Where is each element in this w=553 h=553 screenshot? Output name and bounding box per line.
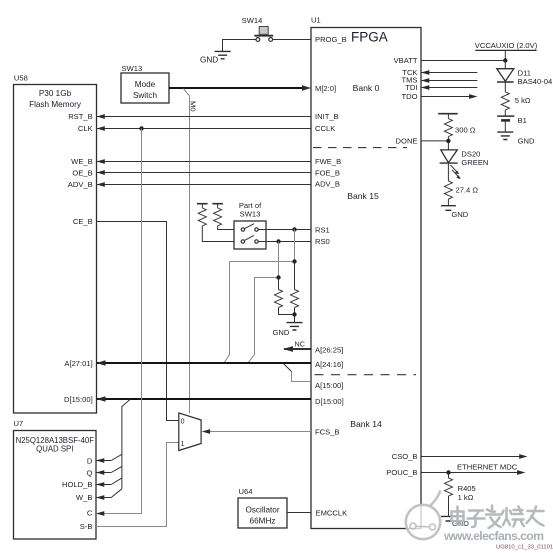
wire DONE — [421, 140, 448, 142]
svg-text:FWE_B: FWE_B — [315, 157, 341, 166]
svg-text:Mode: Mode — [135, 80, 156, 89]
svg-text:FCS_B: FCS_B — [315, 428, 339, 437]
svg-text:M0: M0 — [189, 101, 198, 112]
wire RS0 — [258, 241, 311, 243]
svg-text:HOLD_B: HOLD_B — [62, 480, 92, 489]
wire A[15:00] jog — [283, 364, 311, 382]
svg-text:RST_B: RST_B — [68, 112, 92, 121]
wire TCK — [421, 70, 477, 75]
resistor pull-up RS1 (bar + zigzag) — [197, 204, 234, 242]
svg-text:POUC_B: POUC_B — [386, 468, 417, 477]
bus M[2:0] — [169, 85, 311, 91]
wire SPI C to CCLK — [96, 129, 142, 516]
LED DS20 — [440, 150, 489, 180]
node DONE junction — [446, 139, 450, 143]
svg-text:U7: U7 — [14, 419, 24, 428]
resistor pull-down (RS1 net) — [291, 262, 299, 323]
svg-text:U1: U1 — [311, 16, 321, 25]
svg-text:WE_B: WE_B — [71, 157, 93, 166]
resistor R405 1 kOhm — [445, 473, 476, 517]
FPGA U1 — [311, 16, 421, 529]
svg-text:B1: B1 — [518, 116, 527, 125]
svg-text:A[24:16]: A[24:16] — [315, 360, 343, 369]
svg-text:Bank 14: Bank 14 — [350, 419, 382, 429]
svg-text:5 kΩ: 5 kΩ — [515, 96, 531, 105]
node POUC_B junction — [446, 470, 450, 474]
svg-text:A[26:25]: A[26:25] — [315, 345, 343, 354]
svg-text:ADV_B: ADV_B — [68, 180, 93, 189]
wire SW14 to GND — [223, 40, 257, 52]
svg-text:SW14: SW14 — [242, 16, 263, 25]
svg-text:R405: R405 — [458, 484, 476, 493]
svg-text:TDO: TDO — [401, 92, 417, 101]
ground (DS20) — [441, 206, 469, 219]
wire RS1 — [258, 229, 311, 231]
battery B1 — [497, 116, 527, 132]
svg-text:BAS40-04: BAS40-04 — [518, 77, 553, 86]
svg-text:NC: NC — [295, 339, 305, 348]
wire TDO — [421, 94, 477, 99]
svg-text:W_B: W_B — [76, 493, 92, 502]
oscillator U64 — [238, 487, 287, 528]
svg-text:Flash Memory: Flash Memory — [29, 100, 82, 109]
wire WE_B / FWE_B — [97, 159, 312, 164]
svg-text:SW13: SW13 — [122, 64, 143, 73]
power rail VCCAUXIO — [475, 41, 538, 61]
svg-text:PROG_B: PROG_B — [315, 35, 347, 44]
svg-text:Bank 15: Bank 15 — [347, 191, 379, 201]
svg-text:A[15:00]: A[15:00] — [315, 381, 343, 390]
flash memory U58 — [14, 74, 97, 414]
wire PROG_B — [273, 39, 311, 41]
node CCLK junction — [139, 126, 143, 130]
node RS1 junction — [292, 227, 296, 231]
svg-text:CE_B: CE_B — [73, 217, 93, 226]
svg-text:M[2:0]: M[2:0] — [315, 84, 336, 93]
svg-text:GND: GND — [273, 328, 290, 337]
svg-text:1 kΩ: 1 kΩ — [458, 493, 474, 502]
resistor 5 kOhm — [501, 82, 531, 116]
svg-text:300 Ω: 300 Ω — [455, 126, 476, 135]
svg-text:www.elecfans.com: www.elecfans.com — [443, 529, 544, 543]
bus NC A[26:25] — [283, 339, 311, 352]
svg-text:66MHz: 66MHz — [250, 517, 276, 526]
svg-text:EMCCLK: EMCCLK — [316, 509, 348, 518]
wire TDI — [421, 85, 477, 90]
ground (pull-downs) — [273, 323, 303, 337]
svg-text:0: 0 — [181, 419, 185, 426]
svg-text:INIT_B: INIT_B — [315, 112, 339, 121]
ground (battery) — [497, 132, 535, 146]
svg-text:D[15:00]: D[15:00] — [315, 397, 344, 406]
wire SPI Q — [96, 466, 122, 475]
svg-text:RS0: RS0 — [315, 237, 330, 246]
diode D11 — [497, 61, 552, 86]
watermark chinese text — [452, 506, 544, 529]
switch block Part of SW13 — [234, 201, 266, 249]
node VBATT junction — [503, 58, 507, 62]
svg-text:1: 1 — [181, 441, 185, 448]
bus D[15:00] — [97, 396, 312, 402]
svg-text:FPGA: FPGA — [351, 30, 388, 45]
wire SPI S-B to mux input 1 — [96, 443, 179, 527]
svg-text:GREEN: GREEN — [461, 158, 488, 167]
svg-text:GND: GND — [200, 56, 218, 65]
dashed bank separator (Bank0/Bank15) — [313, 147, 407, 149]
svg-text:CCLK: CCLK — [315, 124, 335, 133]
svg-text:CSO_B: CSO_B — [392, 452, 418, 461]
wire RS0 branch to address bus — [248, 242, 280, 363]
wire M0 — [183, 89, 197, 414]
wire OE_B / FOE_B — [97, 170, 312, 175]
wire FCS_B — [202, 429, 311, 434]
svg-text:VCCAUXIO (2.0V): VCCAUXIO (2.0V) — [475, 41, 538, 50]
wire CE_B to mux input 0 — [97, 222, 179, 421]
svg-text:ETHERNET MDC: ETHERNET MDC — [457, 463, 518, 472]
ground (SW14) — [200, 51, 231, 64]
dashed bank separator (Bank15/Bank14) — [315, 374, 417, 376]
svg-text:FOE_B: FOE_B — [315, 169, 340, 178]
mux U_mux — [179, 413, 201, 451]
svg-text:UG810_c1_33_011012: UG810_c1_33_011012 — [496, 545, 553, 551]
wire TMS — [421, 78, 477, 83]
svg-text:OE_B: OE_B — [72, 168, 92, 177]
resistor 300 Ohm — [438, 114, 476, 150]
wire POUC_B / ETHERNET MDC — [421, 463, 525, 475]
svg-text:DONE: DONE — [396, 136, 418, 145]
wire SPI W_B — [96, 489, 122, 500]
svg-text:Oscillator: Oscillator — [245, 506, 279, 515]
wire SPI D — [96, 454, 122, 463]
wire CSO_B — [421, 454, 528, 459]
svg-text:GND: GND — [518, 137, 535, 146]
svg-text:C: C — [87, 509, 93, 518]
resistor pull-up RS0 (bar + zigzag) — [212, 204, 234, 230]
svg-text:Switch: Switch — [133, 91, 158, 100]
svg-text:D: D — [87, 456, 93, 465]
wire RST_B / INIT_B — [97, 114, 312, 119]
svg-text:P30 1Gb: P30 1Gb — [39, 89, 72, 98]
node RS0 junction — [276, 239, 280, 243]
svg-text:Bank 0: Bank 0 — [353, 83, 380, 93]
svg-text:TDI: TDI — [405, 83, 417, 92]
svg-text:S-B: S-B — [80, 522, 93, 531]
svg-text:Q: Q — [86, 469, 92, 478]
svg-text:VBATT: VBATT — [394, 56, 418, 65]
svg-text:A[27:01]: A[27:01] — [64, 359, 92, 368]
wire VBATT — [421, 60, 505, 62]
svg-text:U64: U64 — [239, 487, 253, 496]
wire SPI HOLD_B — [96, 478, 122, 487]
svg-text:D[15:00]: D[15:00] — [64, 395, 93, 404]
wire CLK / CCLK — [97, 126, 312, 131]
svg-text:QUAD SPI: QUAD SPI — [36, 445, 73, 454]
watermark logo — [406, 491, 441, 540]
wire EMCCLK — [287, 512, 311, 514]
svg-text:U58: U58 — [14, 74, 28, 83]
svg-text:CLK: CLK — [78, 124, 93, 133]
quad SPI flash U7 — [14, 419, 97, 539]
mode switch SW13 — [121, 64, 169, 103]
resistor pull-down (RS0 net) — [275, 278, 295, 315]
svg-text:GND: GND — [451, 210, 468, 219]
svg-text:ADV_B: ADV_B — [315, 180, 340, 189]
svg-text:RS1: RS1 — [315, 225, 330, 234]
wire RS1 branch to address bus — [224, 230, 296, 363]
pushbutton SW14 — [242, 16, 274, 41]
wire ADV_B — [97, 182, 312, 187]
svg-text:27.4 Ω: 27.4 Ω — [456, 186, 479, 195]
ground (R405) — [441, 516, 469, 528]
svg-text:SW13: SW13 — [240, 210, 261, 219]
wire D bus to SPI fan — [122, 400, 130, 489]
resistor 27.4 Ohm — [444, 163, 478, 206]
bus A[27:01] / A[24:16] — [97, 360, 312, 366]
